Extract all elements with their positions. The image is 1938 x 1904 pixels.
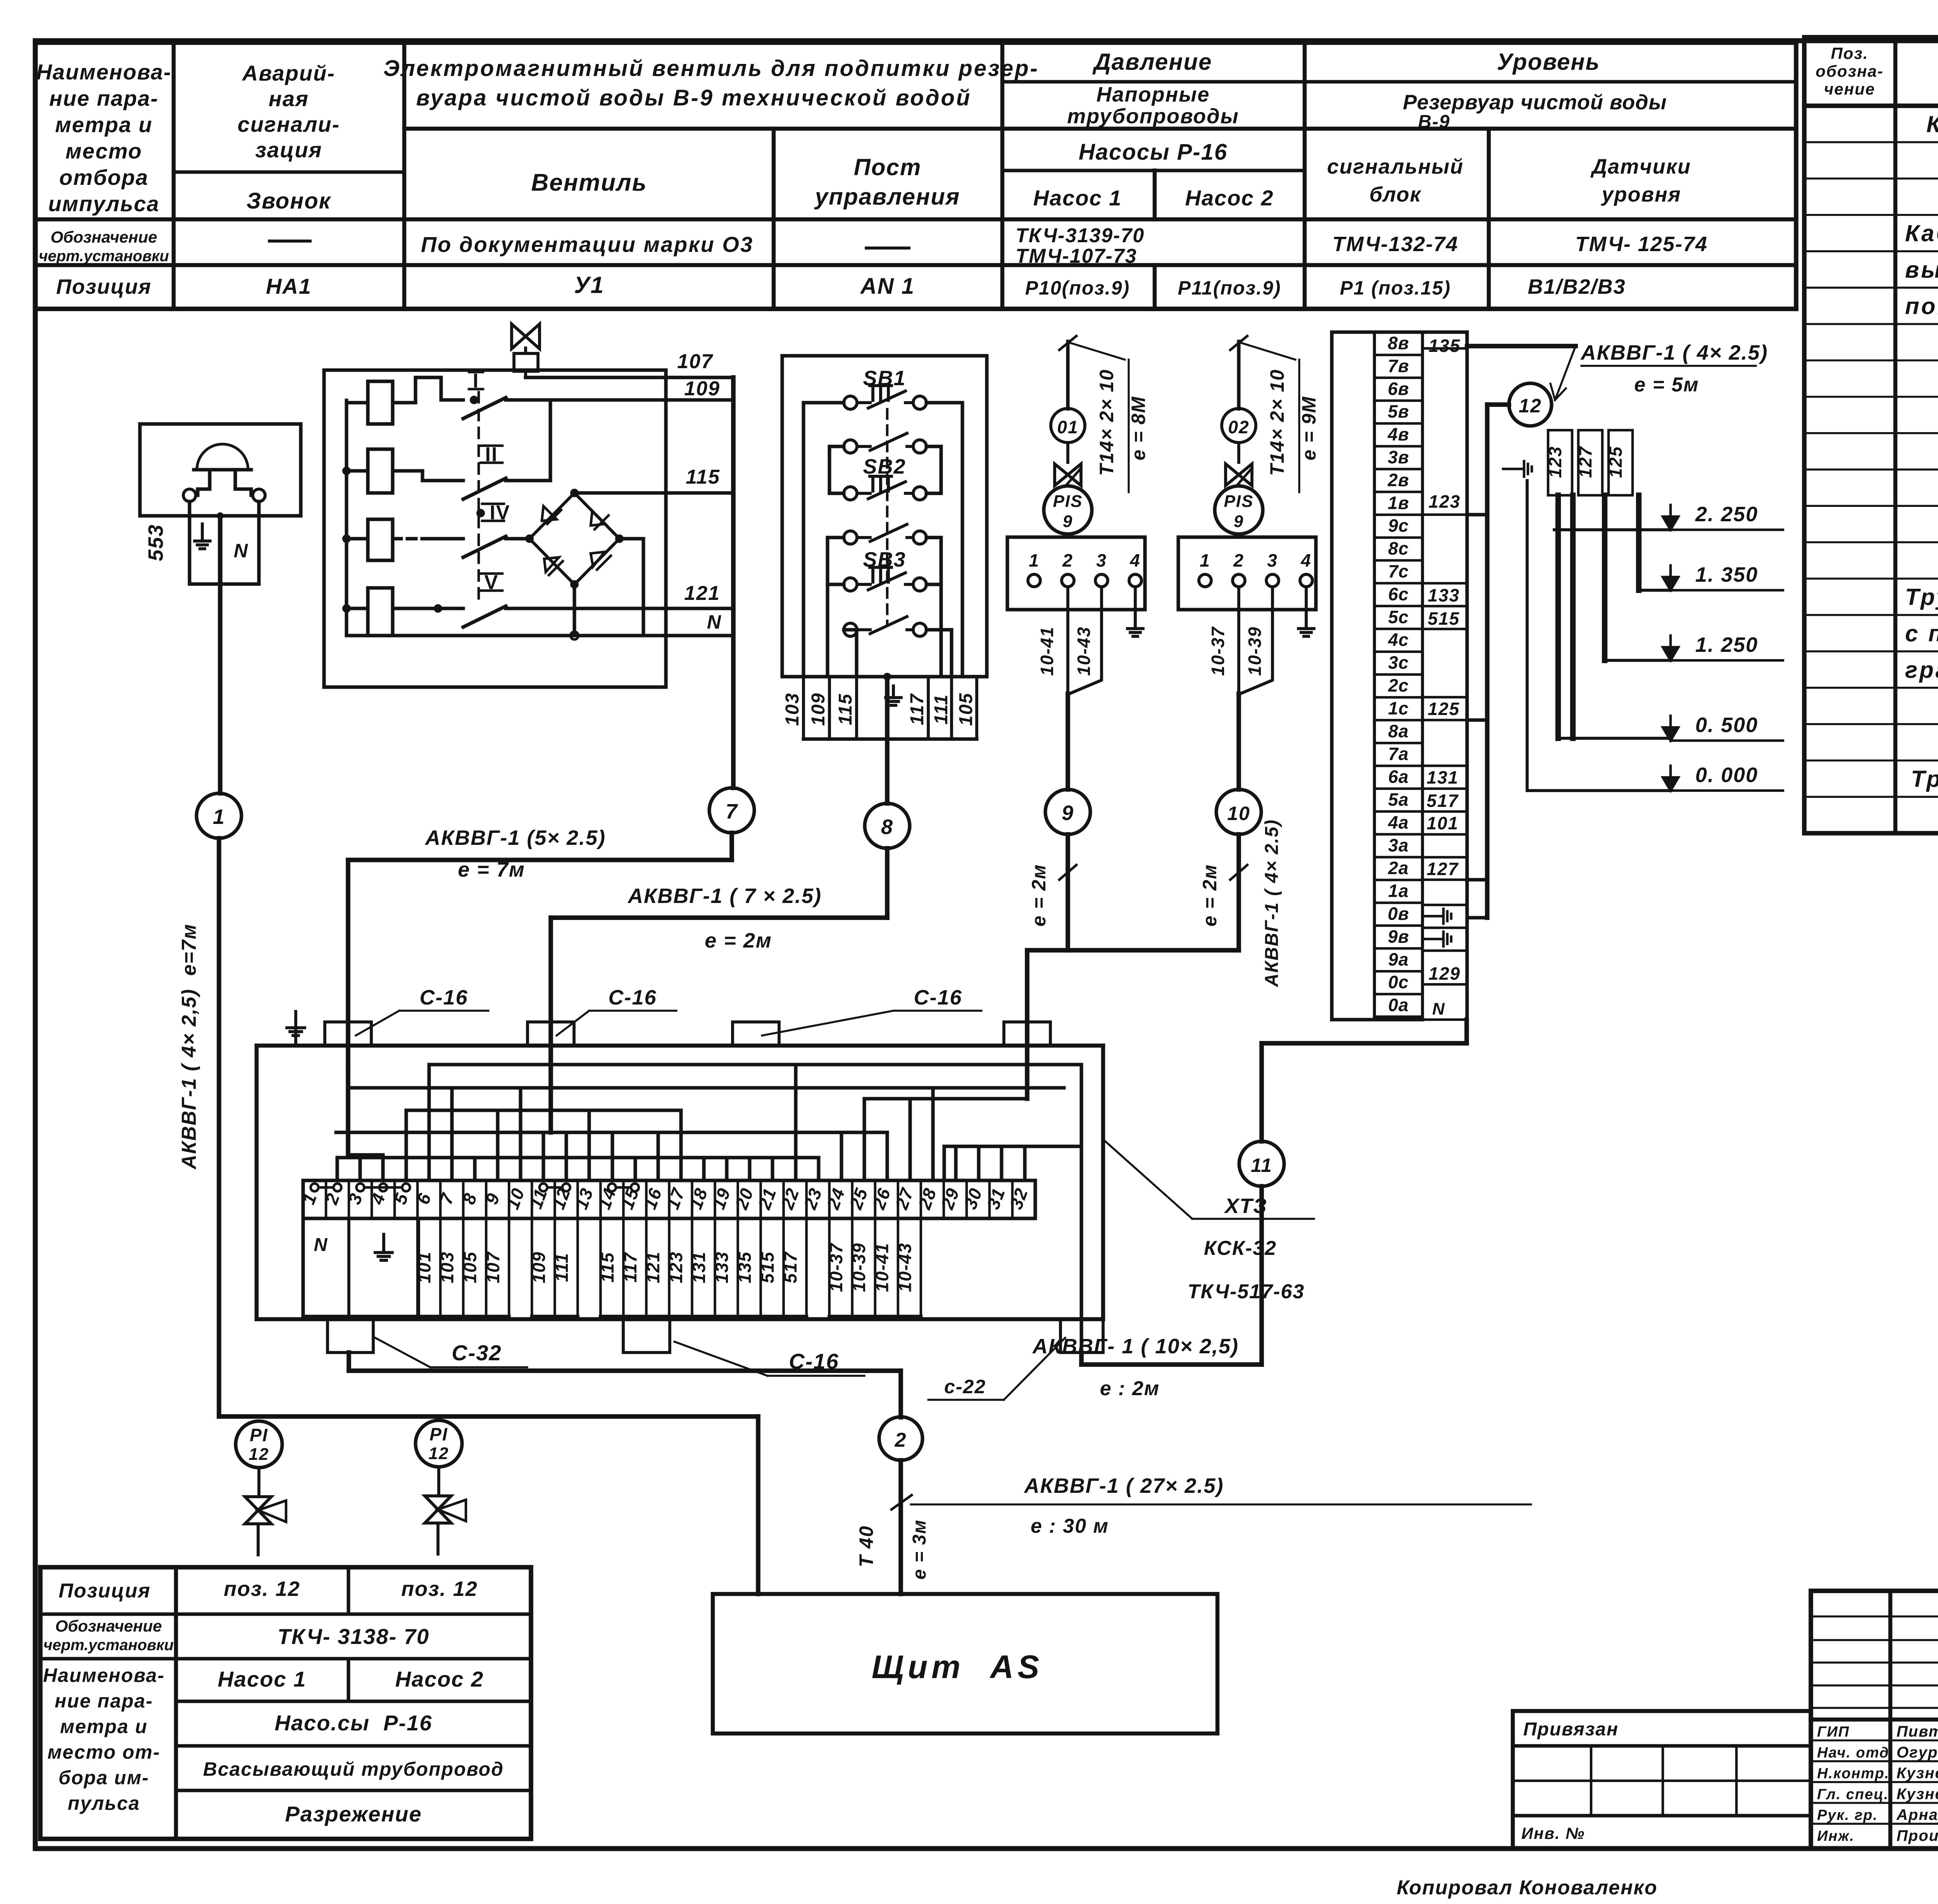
svg-text:32: 32	[1006, 1185, 1032, 1212]
svg-text:3а: 3а	[1388, 835, 1409, 855]
svg-text:2с: 2с	[1388, 675, 1409, 696]
svg-text:Позиция: Позиция	[59, 1580, 150, 1602]
labels T40 e=3m	[855, 1519, 930, 1580]
svg-text:23: 23	[800, 1185, 826, 1213]
svg-text:Т14× 2× 10: Т14× 2× 10	[1096, 369, 1117, 476]
level mark 2.250	[1663, 503, 1783, 530]
svg-text:e = 2м: e = 2м	[705, 929, 772, 952]
svg-text:Вентиль: Вентиль	[531, 169, 647, 196]
svg-text:3с: 3с	[1388, 653, 1409, 673]
signature rows	[1817, 1723, 1938, 1844]
title block main grid	[1811, 1591, 1938, 1849]
svg-text:Арнаутова: Арнаутова	[1896, 1806, 1938, 1823]
svg-text:Позиция: Позиция	[56, 275, 152, 298]
svg-text:Насосы Р-16: Насосы Р-16	[1079, 140, 1228, 165]
svg-text:129: 129	[1429, 963, 1461, 984]
svg-text:АКВВГ-1 (5× 2.5): АКВВГ-1 (5× 2.5)	[424, 826, 606, 849]
svg-text:1: 1	[1200, 550, 1210, 570]
riser ground symbol	[1503, 461, 1532, 477]
wire labels 10-41 10-43	[1037, 626, 1094, 676]
XT3 callout label	[1103, 1139, 1314, 1303]
svg-text:Насос 2: Насос 2	[1185, 186, 1274, 210]
svg-text:8а: 8а	[1388, 721, 1409, 741]
button SB2 contact NC	[844, 476, 926, 500]
svg-text:e = 2м: e = 2м	[1028, 864, 1050, 927]
ground under button station	[883, 673, 901, 705]
svg-text:e : 2м: e : 2м	[1100, 1377, 1160, 1400]
svg-text:6с: 6с	[1388, 584, 1409, 604]
button station internal rails	[803, 403, 962, 677]
svg-text:Пост: Пост	[854, 154, 922, 180]
svg-text:черт.установки: черт.установки	[43, 1637, 174, 1654]
svg-text:111: 111	[552, 1253, 572, 1282]
svg-text:ние пара-: ние пара-	[55, 1690, 153, 1712]
svg-text:Кабели контрольные с алюминие-: Кабели контрольные с алюминие-	[1905, 221, 1938, 246]
svg-text:5с: 5с	[1388, 607, 1409, 627]
svg-text:515: 515	[757, 1251, 778, 1284]
riser bottom connections	[1527, 481, 1671, 791]
svg-text:Проимкина: Проимкина	[1897, 1827, 1938, 1844]
svg-text:515: 515	[1428, 608, 1460, 629]
svg-text:12: 12	[1519, 395, 1542, 417]
svg-text:121: 121	[643, 1251, 663, 1284]
svg-text:22: 22	[777, 1185, 803, 1213]
svg-text:4: 4	[1129, 550, 1141, 570]
PIS wires to node (02)	[1239, 587, 1272, 789]
svg-text:10-43: 10-43	[1074, 626, 1094, 676]
svg-text:поз. 12: поз. 12	[224, 1577, 300, 1601]
svg-text:10-37: 10-37	[826, 1242, 846, 1292]
node circle 11	[1239, 1141, 1284, 1186]
cable to node 8	[885, 677, 890, 803]
svg-text:10: 10	[502, 1185, 529, 1212]
svg-text:2: 2	[1233, 550, 1244, 570]
svg-text:9с: 9с	[1388, 515, 1409, 536]
svg-text:5а: 5а	[1388, 789, 1409, 810]
parameter table grid (top-left)	[35, 43, 1796, 309]
svg-text:4а: 4а	[1388, 812, 1409, 832]
panel bottom stub C-22	[1060, 1319, 1103, 1365]
svg-text:Разрежение: Разрежение	[285, 1802, 422, 1826]
svg-text:3: 3	[1096, 550, 1107, 570]
svg-text:Р1 (поз.15): Р1 (поз.15)	[1340, 277, 1451, 299]
ground at PIS terminal 4 (02)	[1298, 587, 1314, 636]
svg-text:7с: 7с	[1388, 561, 1409, 581]
svg-text:Аварий-: Аварий-	[241, 61, 335, 85]
gauge PI-12 no.1	[236, 1421, 282, 1468]
svg-text:АКВВГ-1 ( 4× 2,5) e=7м: АКВВГ-1 ( 4× 2,5) e=7м	[178, 924, 200, 1170]
node 9 tail	[1028, 834, 1076, 950]
svg-text:105: 105	[460, 1251, 480, 1284]
wire labels 103 109 115 117 111 105	[782, 693, 976, 726]
wire number boxes right of strip	[1422, 332, 1467, 1020]
node circle 1	[197, 793, 241, 838]
svg-text:управления: управления	[814, 184, 960, 210]
svg-text:0с: 0с	[1388, 972, 1409, 992]
svg-text:выми жилами без защитного: выми жилами без защитного	[1905, 257, 1938, 283]
contact linkage dashed	[478, 392, 480, 605]
svg-text:7: 7	[726, 800, 738, 823]
relay block enclosure	[324, 370, 666, 687]
pump table texts	[43, 1577, 504, 1826]
svg-text:2а: 2а	[1388, 858, 1409, 878]
svg-text:Пивторак: Пивторак	[1897, 1723, 1938, 1740]
label SB1	[863, 367, 906, 390]
copied by text	[1397, 1876, 1657, 1899]
node circle 9	[1045, 789, 1090, 834]
label AKVVG-1(27x2.5) e=30m	[911, 1474, 1531, 1537]
svg-text:9: 9	[1062, 801, 1074, 825]
svg-text:2: 2	[321, 1190, 344, 1208]
svg-text:поз. 12: поз. 12	[401, 1577, 478, 1601]
svg-text:Инв. №: Инв. №	[1521, 1824, 1585, 1842]
cable bus to node 7	[731, 377, 736, 788]
svg-text:С-16: С-16	[419, 986, 468, 1009]
svg-text:10-37: 10-37	[1208, 626, 1228, 676]
button SB3 contact NO	[844, 617, 926, 636]
valve U1 symbol	[512, 324, 540, 377]
svg-text:e = 5м: e = 5м	[1634, 374, 1699, 396]
svg-text:1: 1	[213, 805, 225, 829]
svg-text:2: 2	[1062, 550, 1073, 570]
ground symbols rows 0v 9v	[1425, 909, 1451, 946]
svg-text:9в: 9в	[1388, 926, 1409, 946]
svg-text:Гл. спец.: Гл. спец.	[1817, 1786, 1889, 1802]
wire 553 label	[144, 524, 167, 561]
duct label C-16 a	[356, 986, 488, 1036]
svg-text:SB2: SB2	[863, 455, 906, 478]
svg-text:101: 101	[414, 1251, 434, 1284]
svg-text:117: 117	[907, 693, 928, 725]
node circle 10	[1216, 789, 1261, 834]
valve on line 01	[1055, 443, 1081, 486]
svg-text:N: N	[1432, 999, 1445, 1018]
svg-text:115: 115	[835, 693, 856, 725]
svg-text:6в: 6в	[1388, 379, 1409, 399]
panel enclosure XT3	[257, 1046, 1103, 1319]
privjazan box	[1513, 1711, 1811, 1849]
relay coil 3	[347, 519, 426, 560]
svg-text:ТМЧ-132-74: ТМЧ-132-74	[1333, 233, 1459, 256]
svg-text:7: 7	[436, 1190, 458, 1207]
svg-text:105: 105	[956, 693, 976, 726]
svg-text:13: 13	[571, 1185, 597, 1212]
svg-text:блок: блок	[1369, 183, 1422, 206]
svg-text:16: 16	[640, 1185, 666, 1212]
svg-text:131: 131	[689, 1251, 709, 1284]
svg-text:PIS: PIS	[1053, 492, 1083, 511]
duct stub 2	[528, 1022, 574, 1046]
parts list table grid (top-right)	[1804, 37, 1938, 833]
svg-text:Насос 1: Насос 1	[218, 1667, 307, 1691]
svg-text:1. 250: 1. 250	[1695, 633, 1758, 656]
terminal jumpers	[311, 1184, 639, 1191]
svg-text:127: 127	[1427, 859, 1459, 879]
parts list rows text	[1905, 111, 1938, 828]
svg-text:109: 109	[808, 693, 829, 726]
valve below PI no.1	[245, 1468, 286, 1555]
node circle 2	[879, 1417, 922, 1460]
wire 107	[526, 376, 733, 379]
duct label C-16 c	[762, 986, 981, 1036]
svg-text:PIS: PIS	[1224, 492, 1254, 511]
svg-text:4: 4	[1300, 550, 1312, 570]
svg-text:131: 131	[1427, 767, 1459, 787]
svg-text:117: 117	[620, 1252, 640, 1283]
bell terminal wires and lower box	[190, 501, 259, 584]
svg-text:N: N	[707, 611, 722, 633]
svg-text:Насос 1: Насос 1	[1033, 186, 1122, 210]
svg-text:По документации марки О3: По документации марки О3	[421, 232, 753, 257]
svg-text:ХТЗ: ХТЗ	[1224, 1194, 1267, 1218]
label C-32	[375, 1338, 527, 1367]
tube label T14x2x10 (01)	[1071, 343, 1149, 492]
duct ground symbol	[287, 1011, 305, 1046]
svg-text:9: 9	[1063, 512, 1073, 531]
contact IV	[426, 501, 529, 557]
svg-text:Р10(поз.9): Р10(поз.9)	[1025, 277, 1130, 299]
contact V	[434, 571, 733, 627]
svg-text:31: 31	[983, 1185, 1009, 1212]
wire 109	[528, 398, 733, 401]
contact II	[422, 400, 550, 499]
svg-text:трубопроводы: трубопроводы	[1067, 105, 1239, 128]
level mark 0.000	[1663, 763, 1783, 791]
svg-text:4: 4	[367, 1190, 390, 1208]
wire N horizontal	[347, 634, 733, 637]
svg-text:553: 553	[144, 524, 167, 561]
level mark 0.500	[1663, 713, 1783, 741]
button linkage dashed	[886, 409, 889, 624]
valve below PI no.2	[425, 1467, 466, 1554]
svg-text:ТКЧ- 3138- 70: ТКЧ- 3138- 70	[278, 1624, 429, 1649]
svg-text:сигнальный: сигнальный	[1327, 155, 1464, 178]
svg-text:В-9: В-9	[1418, 112, 1450, 132]
bell HA1 enclosure box	[140, 424, 301, 516]
impulse line 02 top tick	[1230, 336, 1247, 409]
svg-text:133: 133	[1428, 585, 1460, 605]
svg-text:8в: 8в	[1388, 333, 1409, 353]
svg-text:Резервуар чистой воды: Резервуар чистой воды	[1403, 91, 1667, 114]
svg-text:133: 133	[712, 1251, 732, 1284]
strip bottom to node 11 run	[1262, 1020, 1467, 1141]
svg-text:109: 109	[529, 1251, 549, 1284]
svg-text:АКВВГ-1 ( 27× 2.5): АКВВГ-1 ( 27× 2.5)	[1024, 1474, 1224, 1497]
node 11 to cable 10x2.5	[1081, 1186, 1262, 1365]
svg-text:Коробки соединительные: Коробки соединительные	[1926, 111, 1938, 137]
svg-text:0а: 0а	[1388, 995, 1409, 1015]
relay left rail	[342, 400, 351, 636]
bell HA1 symbol	[183, 444, 265, 501]
instrument circle 02	[1222, 408, 1256, 443]
svg-text:24: 24	[822, 1185, 849, 1213]
contact I	[441, 370, 528, 419]
parts list header texts	[1816, 44, 1938, 98]
svg-text:с полностью сплющенным: с полностью сплющенным	[1905, 620, 1938, 646]
svg-text:e : 30 м: e : 30 м	[1031, 1515, 1109, 1537]
svg-text:метра и: метра и	[60, 1716, 148, 1737]
svg-text:29: 29	[937, 1185, 963, 1213]
svg-text:10-41: 10-41	[1037, 626, 1057, 676]
level terminal strip cells	[1374, 333, 1422, 1015]
riser cable drops	[1558, 495, 1639, 738]
N label in bell box	[234, 540, 248, 562]
svg-text:Всасывающий трубопровод: Всасывающий трубопровод	[203, 1758, 504, 1780]
cable 135 to right	[1467, 344, 1576, 348]
parameter table row texts	[39, 224, 1708, 299]
svg-text:9: 9	[481, 1190, 504, 1207]
label C-16 bottom	[674, 1342, 864, 1376]
svg-text:3: 3	[344, 1190, 366, 1207]
svg-text:e = 7м: e = 7м	[458, 858, 525, 881]
riser wire labels 123 127 125	[1545, 430, 1633, 495]
svg-text:место: место	[66, 139, 142, 163]
terminal box of PIS (02)	[1178, 537, 1316, 610]
svg-text:ная: ная	[269, 86, 309, 111]
strip wire number labels	[1427, 336, 1461, 1018]
svg-text:135: 135	[1429, 336, 1461, 356]
svg-text:пульса: пульса	[68, 1792, 140, 1814]
svg-text:19: 19	[708, 1185, 735, 1212]
level terminal strip outline	[1332, 332, 1467, 1020]
pressure switch PIS 9 (02)	[1215, 486, 1263, 534]
svg-text:сигнали-: сигнали-	[238, 112, 340, 136]
svg-text:1: 1	[1029, 550, 1040, 570]
relay coil 2	[347, 449, 422, 493]
node circle 8	[865, 803, 910, 848]
svg-text:обозна-: обозна-	[1816, 62, 1883, 80]
svg-text:НА1: НА1	[266, 274, 312, 298]
svg-text:12: 12	[429, 1444, 449, 1463]
svg-text:2в: 2в	[1387, 470, 1409, 490]
label SB2	[863, 455, 906, 478]
svg-text:Инж.: Инж.	[1817, 1828, 1855, 1844]
svg-text:Напорные: Напорные	[1097, 83, 1210, 106]
terminal box of PIS (01)	[1007, 537, 1145, 610]
label AKVVG-1(4x2.5) e=5m	[1550, 341, 1768, 400]
svg-text:АКВВГ- 1 ( 10× 2,5): АКВВГ- 1 ( 10× 2,5)	[1032, 1335, 1239, 1358]
svg-text:e = 2м: e = 2м	[1199, 864, 1221, 927]
svg-text:5: 5	[390, 1190, 412, 1207]
duct stub 1	[325, 1022, 371, 1046]
svg-text:10: 10	[1227, 803, 1250, 824]
button SB3 contact NC	[844, 567, 926, 591]
node circle 7	[709, 788, 754, 833]
svg-text:PI: PI	[429, 1424, 448, 1444]
svg-text:17: 17	[662, 1185, 689, 1212]
svg-text:покрова: покрова	[1905, 293, 1938, 319]
wire routing step near contact I	[416, 377, 441, 400]
svg-text:3: 3	[1267, 550, 1278, 570]
svg-text:С-16: С-16	[608, 986, 657, 1009]
cable AKVVG-1 5x2.5 run to duct	[348, 833, 732, 1067]
svg-text:2. 250: 2. 250	[1695, 503, 1758, 526]
panel bottom stub C-32	[328, 1319, 373, 1371]
svg-text:N: N	[314, 1235, 328, 1255]
svg-text:10-41: 10-41	[872, 1242, 892, 1292]
svg-text:ТМЧ- 125-74: ТМЧ- 125-74	[1575, 233, 1708, 256]
wire labels 107 109 115 121 N	[677, 350, 722, 633]
ground at PIS terminal 4 (01)	[1128, 587, 1143, 636]
node 10 tail	[1199, 819, 1282, 987]
svg-text:Т 40: Т 40	[855, 1525, 877, 1567]
cable AKVVG-1 7x2.5 run to duct	[551, 848, 887, 1067]
svg-text:125: 125	[1605, 446, 1626, 478]
button station enclosure	[782, 356, 987, 677]
svg-text:127: 127	[1575, 446, 1595, 478]
svg-text:8: 8	[881, 815, 893, 839]
svg-text:ТМЧ-107-73: ТМЧ-107-73	[1016, 245, 1137, 267]
svg-text:9а: 9а	[1388, 949, 1409, 969]
svg-text:КСК-32: КСК-32	[1204, 1237, 1277, 1260]
svg-text:Привязан: Привязан	[1523, 1719, 1619, 1740]
svg-text:8с: 8с	[1388, 538, 1409, 558]
svg-text:02: 02	[1228, 417, 1249, 437]
ground in terminal label cell	[375, 1234, 392, 1260]
svg-text:Наименова-: Наименова-	[36, 60, 171, 84]
svg-text:6а: 6а	[1388, 767, 1409, 787]
label SB3	[863, 548, 906, 571]
svg-text:7а: 7а	[1388, 744, 1409, 764]
button SB1 contact NO	[844, 433, 926, 453]
svg-text:АКВВГ-1 ( 4× 2.5): АКВВГ-1 ( 4× 2.5)	[1580, 341, 1768, 364]
svg-text:ГИП: ГИП	[1817, 1724, 1850, 1740]
instrument circle 01	[1051, 408, 1085, 443]
svg-text:С-16: С-16	[914, 986, 962, 1009]
label AKVVG-1(5x2.5) e=7m	[424, 826, 606, 881]
pump table grid	[40, 1567, 531, 1839]
svg-text:с-22: с-22	[944, 1376, 986, 1397]
svg-text:2: 2	[895, 1429, 907, 1451]
svg-text:10-39: 10-39	[1245, 626, 1265, 676]
svg-text:9: 9	[1234, 512, 1244, 531]
duct stub 4	[1004, 1022, 1050, 1046]
svg-text:115: 115	[686, 466, 720, 488]
svg-text:8: 8	[459, 1190, 481, 1207]
diode bridge	[525, 489, 624, 589]
svg-text:0в: 0в	[1388, 904, 1409, 924]
duct label C-16 b	[557, 986, 676, 1036]
svg-text:Звонок: Звонок	[247, 188, 331, 214]
svg-text:1. 350: 1. 350	[1695, 563, 1758, 586]
cabinet Shchit AS	[713, 1594, 1217, 1733]
svg-text:4с: 4с	[1388, 630, 1409, 650]
svg-text:ТКЧ-3139-70: ТКЧ-3139-70	[1016, 224, 1145, 247]
svg-text:Р11(поз.9): Р11(поз.9)	[1178, 277, 1281, 299]
wire labels 10-37 10-39	[1208, 626, 1265, 676]
svg-text:1с: 1с	[1388, 698, 1409, 718]
gauge PI-12 no.2	[416, 1420, 462, 1467]
svg-text:В1/В2/В3: В1/В2/В3	[1528, 275, 1626, 298]
button SB2 contact NO	[844, 524, 926, 544]
panel internal wiring nest	[336, 1046, 1081, 1319]
label AKVVG-1(4x2.5) e=7m rotated	[178, 924, 200, 1170]
svg-text:Насос 2: Насос 2	[395, 1667, 484, 1691]
cable from panel to node 2	[349, 1371, 901, 1417]
svg-text:С-32: С-32	[452, 1341, 502, 1365]
pressure switch PIS 9 (01)	[1044, 486, 1092, 534]
svg-text:125: 125	[1428, 699, 1460, 719]
svg-text:e = 3м: e = 3м	[909, 1519, 930, 1580]
svg-text:28: 28	[914, 1185, 940, 1213]
cable duct line with panel top	[257, 1044, 1103, 1048]
svg-text:Насо.сы Р-16: Насо.сы Р-16	[275, 1711, 433, 1735]
svg-text:Кузнецов: Кузнецов	[1897, 1785, 1938, 1802]
node circle 12	[1509, 383, 1552, 426]
svg-text:Уровень: Уровень	[1497, 49, 1600, 75]
svg-text:У1: У1	[574, 272, 604, 298]
svg-text:N: N	[234, 540, 248, 562]
